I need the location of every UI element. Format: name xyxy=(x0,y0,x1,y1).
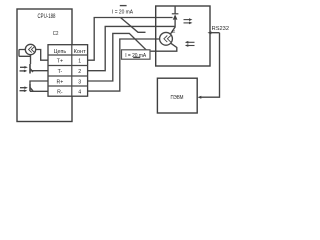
arrowhead into PC xyxy=(198,96,202,99)
wire transmitter to T+ pin xyxy=(36,50,48,61)
svg-text:I = 20 mA: I = 20 mA xyxy=(112,10,133,16)
light arrow VD1 b xyxy=(20,70,26,72)
svg-text:3: 3 xyxy=(78,80,81,86)
adapter receiver diode xyxy=(174,6,176,14)
wire transmitter down to photodiode VD1 xyxy=(30,55,32,64)
PC box xyxy=(157,78,197,113)
wire pin2 T- to adapter xyxy=(88,26,176,70)
connector bracket at transmitter xyxy=(19,50,31,57)
controller CPU-188 box xyxy=(17,9,72,122)
RS232 wire adapter to PC xyxy=(200,33,220,98)
svg-text:R+: R+ xyxy=(57,80,64,86)
current direction arrows at adapter transmitter xyxy=(188,41,195,43)
light arrow VD2 a xyxy=(20,87,26,89)
arrowhead into adapter xyxy=(208,31,212,34)
connector C2 table xyxy=(48,45,88,96)
optocoupler photodiode VD2 xyxy=(29,84,31,91)
wire pin3 R+ to adapter (with crossover jog) xyxy=(88,33,177,81)
light arrow VD2 b xyxy=(20,90,26,92)
optocoupler photodiode VD1 xyxy=(29,64,31,74)
wire VD1 to T- pin xyxy=(30,70,48,72)
svg-text:R-: R- xyxy=(57,90,63,96)
svg-text:T+: T+ xyxy=(57,59,63,65)
wire pin1 T+ to adapter diode xyxy=(88,18,173,61)
svg-text:4: 4 xyxy=(78,90,81,96)
svg-text:C2: C2 xyxy=(53,31,59,37)
twisted pair slash wires 1-2 xyxy=(121,18,146,33)
svg-text:Конт: Конт xyxy=(74,49,87,55)
light arrows at diode xyxy=(184,19,191,21)
svg-text:2: 2 xyxy=(78,69,81,75)
svg-text:T-: T- xyxy=(58,69,63,75)
light arrow VD1 a xyxy=(20,66,26,68)
transmitter current source (circle with chevrons) xyxy=(25,44,35,54)
svg-text:Цепь: Цепь xyxy=(54,49,67,55)
current label I = 20 mA (bottom, boxed) xyxy=(122,50,151,59)
wire pin4 R- to adapter xyxy=(88,39,160,91)
adapter transmitter current source (circle with chevrons) xyxy=(160,32,173,45)
adapter box xyxy=(156,6,210,66)
svg-text:1: 1 xyxy=(78,59,81,65)
wire VD2 to R- pin xyxy=(30,90,48,92)
svg-text:ПЭВМ: ПЭВМ xyxy=(171,95,184,101)
wire R+ pin to photodiode VD2 xyxy=(30,81,48,84)
svg-text:RS232: RS232 xyxy=(212,26,229,32)
svg-text:Е: Е xyxy=(172,29,175,34)
svg-text:CPU-188: CPU-188 xyxy=(38,14,56,20)
